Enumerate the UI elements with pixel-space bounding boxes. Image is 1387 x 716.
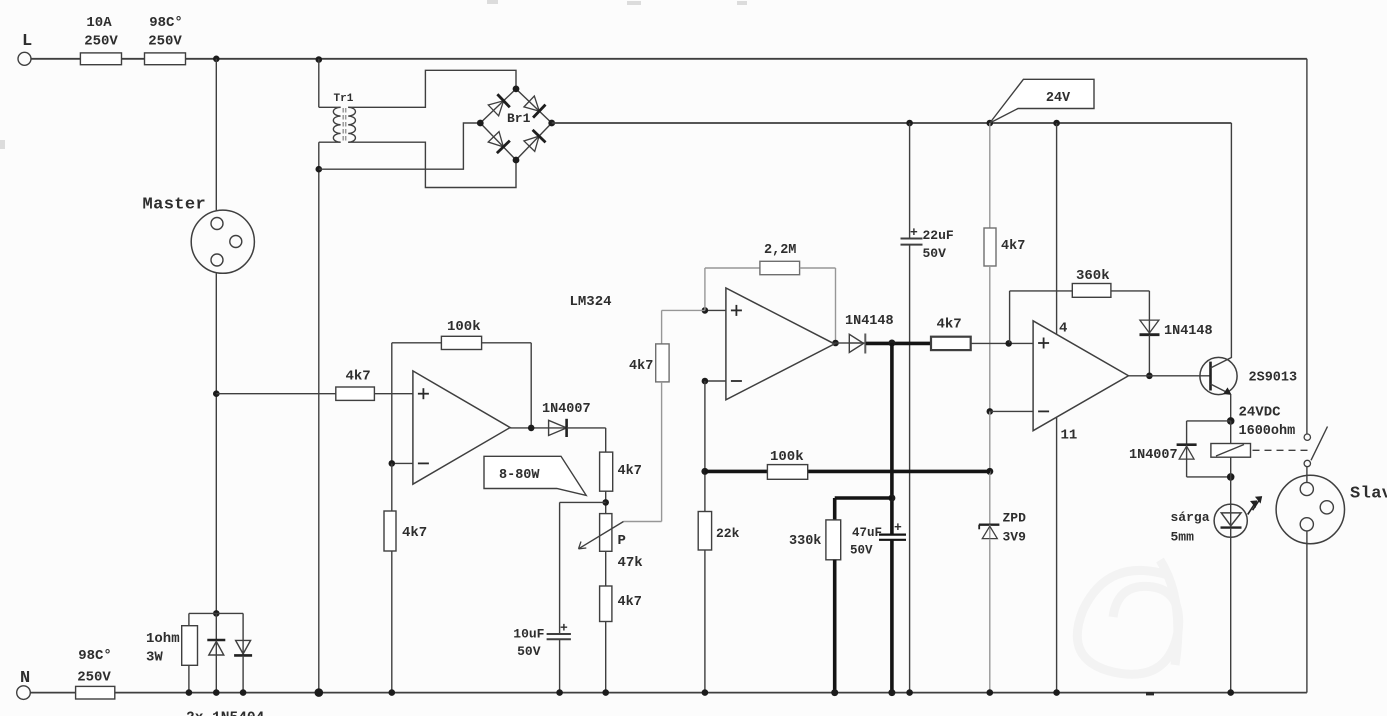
svg-text:1N4148: 1N4148: [1164, 324, 1213, 339]
svg-text:100k: 100k: [770, 449, 804, 465]
svg-text:+: +: [894, 520, 902, 535]
svg-text:LM324: LM324: [570, 294, 612, 310]
svg-text:Tr1: Tr1: [334, 93, 354, 105]
svg-text:11: 11: [1061, 428, 1078, 444]
svg-text:3W: 3W: [146, 650, 163, 666]
svg-text:4k7: 4k7: [402, 525, 427, 541]
svg-text:250V: 250V: [84, 34, 118, 50]
svg-text:Master: Master: [143, 196, 207, 215]
svg-text:4k7: 4k7: [937, 317, 962, 333]
svg-text:2S9013: 2S9013: [1249, 371, 1298, 386]
svg-text:ZPD: ZPD: [1003, 511, 1027, 526]
svg-text:50V: 50V: [923, 246, 947, 261]
svg-text:4k7: 4k7: [618, 595, 642, 610]
svg-text:98C°: 98C°: [149, 15, 183, 31]
svg-text:4: 4: [1059, 321, 1067, 337]
svg-text:+: +: [910, 225, 918, 240]
svg-text:10uF: 10uF: [513, 627, 544, 642]
svg-text:Br1: Br1: [507, 111, 531, 126]
svg-text:1600ohm: 1600ohm: [1239, 424, 1296, 439]
svg-text:47k: 47k: [618, 555, 643, 571]
svg-text:2x 1N5404: 2x 1N5404: [186, 711, 265, 716]
svg-text:1N4007: 1N4007: [1129, 448, 1178, 463]
svg-text:2,2M: 2,2M: [764, 243, 796, 258]
svg-text:100k: 100k: [447, 319, 481, 335]
svg-text:330k: 330k: [789, 534, 821, 549]
svg-text:4k7: 4k7: [618, 464, 642, 479]
svg-text:L: L: [22, 32, 32, 51]
svg-text:sárga: sárga: [1171, 510, 1210, 525]
svg-text:N: N: [20, 669, 30, 688]
svg-text:47uF: 47uF: [852, 526, 882, 540]
svg-text:50V: 50V: [850, 544, 873, 558]
svg-text:360k: 360k: [1076, 268, 1110, 284]
svg-text:3V9: 3V9: [1003, 530, 1027, 545]
svg-text:1N4148: 1N4148: [845, 314, 894, 329]
svg-text:5mm: 5mm: [1171, 530, 1195, 545]
svg-text:4k7: 4k7: [629, 359, 653, 374]
svg-text:Slave: Slave: [1350, 485, 1387, 504]
svg-text:250V: 250V: [148, 34, 182, 50]
svg-text:250V: 250V: [77, 670, 111, 686]
svg-text:10A: 10A: [86, 15, 112, 31]
svg-text:+: +: [560, 621, 568, 636]
svg-text:24VDC: 24VDC: [1239, 405, 1282, 421]
svg-text:98C°: 98C°: [78, 648, 112, 664]
svg-text:50V: 50V: [517, 644, 541, 659]
svg-text:P: P: [618, 533, 626, 549]
svg-text:22uF: 22uF: [923, 228, 954, 243]
svg-text:4k7: 4k7: [1001, 239, 1025, 254]
svg-text:4k7: 4k7: [346, 369, 371, 385]
svg-text:1ohm: 1ohm: [146, 631, 180, 647]
svg-text:24V: 24V: [1046, 91, 1071, 106]
svg-text:22k: 22k: [716, 526, 740, 541]
svg-text:8-80W: 8-80W: [499, 468, 540, 483]
svg-text:1N4007: 1N4007: [542, 402, 591, 417]
